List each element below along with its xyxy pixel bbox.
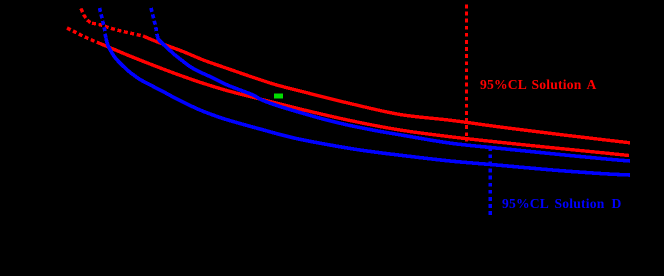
blue curve 2 dashed vertical segment (151, 8, 157, 36)
red vertical dashed marker line (Solution A) (465, 5, 468, 142)
red curve 1 dashed steep segment (81, 9, 92, 24)
blue vertical dashed marker line (Solution D) (489, 147, 492, 218)
blue curve 2 solid (157, 36, 630, 161)
green best-fit marker (274, 94, 283, 99)
blue curve 1 dashed vertical segment (100, 8, 106, 38)
label: 95%CL Solution A (480, 77, 527, 93)
blue curve 1 solid (106, 38, 630, 175)
red curve 1 dashed flat segment (92, 23, 143, 36)
label: 95%CL Solution D (502, 196, 549, 212)
red curve 2 dashed segment (67, 28, 100, 44)
red curve 2 solid (100, 44, 629, 156)
red curve 1 solid (143, 36, 630, 143)
